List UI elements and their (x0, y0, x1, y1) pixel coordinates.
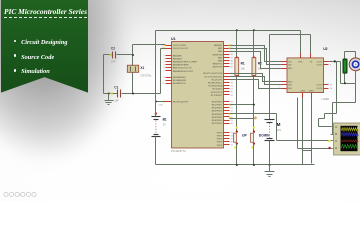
oscilloscope input A (331, 125, 338, 129)
U1 right pin 29 PSP6 (217, 139, 234, 141)
wire ground rail to C2 (104, 54, 113, 56)
wire motor top loop (345, 51, 356, 53)
svg-text:18: 18 (231, 82, 234, 84)
wire scope D vertical (297, 98, 299, 149)
wire button UP to ground rail (236, 144, 238, 165)
wire crystal top (132, 55, 134, 66)
svg-text:RD1/PSP1: RD1/PSP1 (212, 105, 223, 107)
svg-text:B1: B1 (163, 118, 167, 122)
wire diode top lead (344, 52, 346, 59)
svg-text:3: 3 (163, 58, 165, 60)
U1 right pin 28 RD5/PSP5 (212, 117, 234, 119)
svg-text:PSP4: PSP4 (217, 132, 223, 134)
svg-text:RD7/PSP7: RD7/PSP7 (212, 123, 223, 125)
svg-text:30: 30 (231, 123, 234, 125)
svg-text:M: M (277, 122, 281, 127)
svg-text:8: 8 (163, 77, 165, 79)
svg-text:U1: U1 (171, 37, 176, 41)
U1 right pin 21 RD2/PSP2 (212, 108, 234, 110)
svg-text:C: C (335, 139, 337, 143)
U1 right pin 24 RC5/SDO (213, 89, 234, 91)
svg-text:14: 14 (330, 88, 333, 90)
svg-text:40: 40 (231, 67, 234, 69)
svg-text:OUT3: OUT3 (316, 85, 323, 87)
svg-text:RD5/PSP5: RD5/PSP5 (212, 117, 223, 119)
U2 top pin 8 VS (309, 54, 312, 64)
U1 right pin 27 PSP4 (217, 132, 234, 134)
wire VDD riser (155, 31, 157, 102)
wire VDD to U2 VSS (300, 31, 302, 54)
pin marker scope C (328, 140, 330, 142)
pin state marker (229, 113, 231, 115)
svg-text:25: 25 (231, 92, 234, 94)
wire motor down leg (355, 84, 357, 103)
U1 right pin 39 RB6/PGC (213, 64, 234, 66)
op-amp U2 body (L293D) (287, 58, 324, 93)
U1 right pin 37 RB4 (218, 57, 234, 59)
wire battery B1 bottom lead (155, 137, 157, 165)
svg-text:MCLR/Vpp/THV: MCLR/Vpp/THV (173, 101, 189, 103)
wire OSC2 riser (160, 49, 162, 94)
U1 right pin 29 RD6/PSP6 (212, 120, 234, 122)
oscilloscope screen (341, 126, 358, 151)
wire VDD top rail (156, 30, 301, 32)
svg-text:UP: UP (242, 134, 247, 138)
svg-text:R1: R1 (241, 62, 245, 66)
oscilloscope input B (331, 132, 338, 136)
wire OSC1 riser (132, 45, 134, 55)
svg-text:29: 29 (231, 120, 234, 122)
wire VS riser (269, 35, 271, 120)
svg-text:RC4/SDI/SDA: RC4/SDI/SDA (209, 85, 223, 88)
U2 bottom pin GND a (300, 91, 305, 98)
svg-text:PSP8: PSP8 (217, 145, 223, 147)
button DOWN state markers (251, 127, 255, 149)
U1 left pin 2 RA0/AN0 (163, 54, 182, 57)
wire motor left vertical (340, 62, 342, 84)
pin state marker (229, 104, 231, 106)
U1 left pin 1 MCLR/Vpp/THV (163, 101, 189, 103)
wire VS rail (270, 34, 311, 36)
svg-text:38: 38 (231, 60, 234, 62)
svg-text:RC7/RX/DT: RC7/RX/DT (211, 95, 223, 97)
svg-text:RD4/PSP4: RD4/PSP4 (212, 114, 223, 116)
button UP state markers (234, 127, 238, 149)
wire scope A step3 (319, 118, 325, 120)
wire U1 pin y79.5 to U2 pin y88.1 (230, 80, 282, 89)
svg-text:RC0/T1OSO/T1CKI: RC0/T1OSO/T1CKI (203, 73, 223, 75)
svg-text:X1: X1 (140, 66, 144, 70)
svg-text:PSP5: PSP5 (217, 136, 223, 138)
junction crystal top node (132, 54, 134, 56)
junction rail-ground (269, 164, 271, 166)
resistor R2 body (252, 58, 256, 76)
wire U1 pin y48.2 to U2 pin y64.8 (230, 49, 282, 65)
U1 left pin 6 RA4/T0CKI/C1OUT (163, 67, 192, 70)
U1 left pin 3 RA1/AN1 (163, 57, 182, 60)
scope trace channel C (red) (341, 140, 358, 142)
ground symbol (rail) (265, 165, 275, 177)
wire U1 pin y45.1 to U2 pin y61.4 (230, 46, 282, 62)
U1 right pin 33 RB0/INT (214, 45, 234, 47)
wire ground rail (156, 164, 315, 166)
wire U1 pin y76.4 to U2 pin y84.6 (230, 77, 282, 85)
U1 right pin 35 RB2 (218, 51, 234, 53)
U1 left pin 9 RE1/AN6/WR (163, 79, 186, 82)
svg-text:RE0/AN5/RD: RE0/AN5/RD (173, 76, 186, 79)
svg-text:L293D: L293D (322, 97, 330, 101)
svg-text:31: 31 (231, 145, 234, 147)
U1 right pin 38 RB5 (218, 60, 234, 62)
U2 right pin 3 OUT1 (316, 61, 331, 63)
probe marker (254, 116, 258, 120)
svg-text:VSS: VSS (298, 62, 303, 64)
wire scope A feed drop (336, 62, 338, 114)
svg-text:22: 22 (231, 111, 234, 113)
wire motor bottom loop (341, 83, 356, 85)
junction ground leg (108, 93, 110, 95)
svg-text:RD3/PSP3: RD3/PSP3 (212, 111, 223, 113)
button UP body (233, 130, 238, 144)
wire battery M bottom lead (269, 141, 271, 165)
wire button DOWN to ground rail (253, 144, 255, 165)
wire RD5 to UP node (230, 118, 256, 120)
wire scope C horizontal (277, 140, 331, 142)
svg-text:39: 39 (231, 64, 234, 66)
svg-text:RE1/AN6/WR: RE1/AN6/WR (173, 79, 187, 82)
U1 right pin 40 RB7/PGD (213, 67, 234, 69)
svg-text:GND: GND (309, 91, 314, 93)
ribbon shadow (0, 0, 130, 160)
oscilloscope input C (331, 139, 338, 143)
wire U2 gnd column b (311, 98, 313, 164)
U1 right pin 26 RC7/RX/DT (211, 95, 234, 97)
svg-text:RC6/TX/CK: RC6/TX/CK (211, 92, 223, 94)
svg-text:RD0/PSP0: RD0/PSP0 (212, 101, 223, 103)
wire scope D horizontal (298, 148, 331, 150)
svg-text:OUT2: OUT2 (316, 65, 323, 67)
U2 top pin 16 VSS (298, 54, 303, 64)
U1 right pin 16 RC1/T1OSI/CCP2 (205, 76, 234, 78)
svg-text:GND: GND (300, 91, 305, 93)
U1 right pin 27 RD4/PSP4 (212, 114, 234, 116)
resistor R1 body (235, 58, 239, 76)
ground symbol (crystal) (105, 94, 114, 105)
junction rail-DOWN (253, 164, 255, 166)
watermark dots (4, 192, 36, 196)
svg-text:RB0/INT: RB0/INT (214, 45, 223, 47)
U2 left pin 2 IN1 (279, 61, 292, 63)
U1 right pin 31 PSP8 (217, 145, 234, 147)
svg-text:26: 26 (231, 95, 234, 97)
pin state marker (163, 44, 165, 46)
svg-text:U2: U2 (323, 47, 327, 51)
junction RD1-DOWN (253, 104, 255, 106)
ribbon banner (1, 0, 88, 94)
wire motor to scope B horizontal (333, 102, 356, 104)
svg-text:OUT1: OUT1 (316, 61, 323, 63)
wire gnd box horizontal (303, 150, 312, 152)
svg-text:RD6/PSP6: RD6/PSP6 (212, 120, 223, 122)
svg-text:RA3/AN3/VREF+: RA3/AN3/VREF+ (173, 64, 191, 67)
pin marker scope D (328, 147, 330, 149)
U2 right pin 11 OUT3 (316, 84, 332, 86)
svg-text:RA2/AN2/VREF-/CVREF: RA2/AN2/VREF-/CVREF (173, 61, 198, 64)
wire OSC1 horizontal (133, 44, 166, 46)
op-amp U1 body (PIC16F877A) (172, 42, 224, 149)
svg-text:RA4/T0CKI/C1OUT: RA4/T0CKI/C1OUT (173, 67, 193, 70)
pin state marker (229, 47, 231, 49)
svg-text:11: 11 (330, 84, 333, 86)
scope trace channel B (blue) (341, 132, 358, 135)
svg-text:RD2/PSP2: RD2/PSP2 (212, 108, 223, 110)
U1 right pin 17 RC2/CCP1 (211, 79, 233, 81)
wire VS drop to U2 (310, 35, 312, 54)
scope trace channel A (yellow) (341, 128, 358, 131)
capacitor C1 plates (118, 90, 121, 98)
svg-text:23: 23 (231, 86, 234, 88)
U1 right pin 36 RB3/PGM (212, 54, 233, 56)
junction motor bottom (344, 82, 346, 84)
wire scope C drop (276, 114, 278, 141)
resistor R1 pin dots (236, 56, 238, 77)
svg-text:24: 24 (231, 89, 234, 91)
button DOWN body (251, 130, 256, 144)
U2 left pin 9 EN2 (279, 81, 293, 83)
svg-text:2: 2 (163, 55, 165, 57)
wire rail to R1 (236, 31, 238, 58)
oscilloscope input D (331, 146, 338, 150)
svg-text:10k: 10k (241, 67, 246, 71)
wire motor top lead (355, 52, 357, 59)
svg-text:36: 36 (231, 54, 234, 56)
crystal X1 plates (131, 67, 136, 72)
diode D1 (flyback, green bar) (343, 59, 347, 74)
svg-text:DOWN: DOWN (259, 134, 270, 138)
wire MCLR to battery node (156, 101, 166, 103)
wire battery B1 top lead (155, 102, 157, 117)
U2 left pin 10 IN3 (278, 84, 292, 86)
wire R2 to button DOWN (253, 77, 255, 132)
wire scope B drop (332, 103, 334, 135)
svg-text:5: 5 (163, 65, 165, 67)
svg-text:RB3/PGM: RB3/PGM (212, 54, 222, 56)
svg-text:9: 9 (163, 80, 165, 82)
wire C1 to OSC2 leg (122, 93, 161, 95)
U1 right pin 30 PSP7 (217, 142, 234, 144)
svg-text:37: 37 (231, 57, 234, 59)
svg-text:RA5/AN4/SS/C2OUT: RA5/AN4/SS/C2OUT (173, 70, 194, 73)
U1 left pin 13 OSC1/CLKIN (162, 45, 186, 47)
svg-text:12V: 12V (277, 128, 282, 132)
svg-text:PSP6: PSP6 (217, 139, 223, 141)
wire R1 to button UP (236, 77, 238, 132)
wire scope A step2 (324, 114, 326, 119)
wire C2 to crystal node (117, 54, 133, 56)
svg-text:RA0/AN0: RA0/AN0 (173, 54, 183, 57)
U1 right pin 15 RC0/T1OSO/T1CKI (203, 73, 234, 75)
wire left vertical ground leg (103, 55, 105, 94)
svg-text:RC5/SDO: RC5/SDO (213, 89, 223, 91)
svg-text:7: 7 (163, 71, 165, 73)
U1 left pin 5 RA3/AN3/VREF+ (163, 64, 190, 67)
wire crystal bottom (132, 73, 134, 94)
U1 right pin 25 RC6/TX/CK (211, 92, 234, 94)
wire rail to R2 (253, 31, 255, 58)
svg-text:B: B (335, 132, 337, 136)
U1 right pin 23 RC4/SDI/SDA (209, 85, 234, 88)
wire U1 pin y73.3 to U2 pin y81.4 (230, 74, 282, 82)
battery B1 plates (152, 117, 161, 137)
junction VDD-R2 (253, 29, 255, 31)
svg-text:RB7/PGD: RB7/PGD (213, 67, 223, 69)
U1 left pin 14 OSC2/CLKOUT (162, 48, 189, 50)
capacitor C2 plates (113, 52, 116, 59)
U2 right pin 6 OUT2 (316, 65, 331, 67)
pin end marker C1 left (111, 92, 113, 94)
svg-text:3V: 3V (163, 123, 166, 127)
svg-text:CRYSTAL: CRYSTAL (140, 75, 152, 78)
motor M1 body (349, 58, 360, 71)
junction MCLR node (155, 101, 157, 103)
pin end marker C2 left (110, 54, 112, 56)
U1 left pin 7 RA5/AN4/SS/C2OUT (163, 70, 194, 73)
svg-text:19: 19 (231, 101, 234, 103)
wire scope A step4 (318, 119, 320, 127)
U1 left pin 10 RE2/AN7/CS (162, 82, 186, 85)
svg-text:4: 4 (163, 61, 165, 63)
svg-text:D: D (335, 146, 337, 150)
wire U1 pin y51.3 to U2 pin y68.0 (230, 52, 282, 69)
pin state marker (163, 101, 165, 103)
U1 left pin 4 RA2/AN2/VREF-/CVREF (163, 61, 197, 64)
junction rail-UP (236, 164, 238, 166)
U2 left pin 7 IN2 (279, 65, 292, 67)
battery B1 state marker (155, 112, 157, 114)
svg-text:A: A (335, 125, 337, 129)
pin state marker (163, 47, 165, 49)
wire ground rail to C1 (104, 93, 118, 95)
svg-text:PSP7: PSP7 (217, 142, 223, 144)
U1 right pin 18 RC3/SCK/SCL (208, 82, 234, 84)
svg-text:VDD: VDD (159, 104, 164, 106)
svg-text:OUT4: OUT4 (316, 88, 323, 90)
svg-text:6: 6 (330, 65, 332, 67)
svg-text:OSC2/CLKOUT: OSC2/CLKOUT (173, 48, 189, 50)
U1 right pin 34 RB1 (218, 48, 234, 50)
svg-text:6: 6 (163, 68, 165, 70)
pin state marker (229, 44, 231, 46)
wire OSC2 horizontal (161, 48, 166, 50)
svg-text:RC2/CCP1: RC2/CCP1 (211, 79, 223, 81)
U2 right pin 14 OUT4 (316, 88, 333, 90)
U1 right pin 30 RD7/PSP7 (212, 123, 234, 125)
svg-text:RB6/PGC: RB6/PGC (213, 64, 223, 66)
crystal X1 body (127, 65, 138, 72)
resistor R2 pin dots (253, 56, 255, 77)
pin state marker (229, 117, 231, 119)
svg-text:RC3/SCK/SCL: RC3/SCK/SCL (208, 83, 223, 85)
svg-text:10: 10 (162, 83, 165, 85)
svg-text:RA1/AN1: RA1/AN1 (173, 57, 183, 60)
U1 left pin 8 RE0/AN5/RD (163, 76, 186, 79)
U1 right pin 19 RD0/PSP0 (212, 101, 234, 103)
wire OUT1 to motor loop (329, 61, 341, 63)
wire RD1 to DOWN node (230, 104, 254, 106)
wire RD4 to scope C step1 (230, 113, 277, 115)
wire scope A step1 (325, 113, 337, 115)
U1 right pin 22 RD3/PSP3 (212, 111, 234, 113)
scope trace channel D (green) (341, 144, 357, 148)
svg-text:21: 21 (231, 108, 234, 110)
wire diode bottom lead (344, 74, 346, 84)
wire U2 gnd column a (302, 98, 304, 165)
U1 right pin 20 RD1/PSP1 (212, 104, 234, 106)
svg-text:PIC16F877A: PIC16F877A (171, 149, 186, 153)
svg-text:RC1/T1OSI/CCP2: RC1/T1OSI/CCP2 (205, 76, 224, 78)
U1 right pin 28 PSP5 (217, 135, 234, 137)
wire scope A step5 (319, 126, 331, 128)
oscilloscope body (334, 123, 360, 155)
svg-text:R2: R2 (258, 62, 262, 66)
U2 left pin 15 IN4 (278, 88, 292, 90)
battery M plates (265, 120, 275, 141)
svg-text:RE2/AN7/CS: RE2/AN7/CS (173, 82, 186, 85)
junction OUT1 node (334, 60, 336, 62)
junction VDD-R1 (236, 29, 238, 31)
wire motor bottom lead (355, 71, 357, 84)
U2 bottom pin GND b (309, 91, 314, 98)
U2 left pin 1 EN1 (279, 68, 293, 70)
svg-text:OSC1/CLKIN: OSC1/CLKIN (173, 45, 186, 47)
junction crystal bottom node (132, 93, 134, 95)
